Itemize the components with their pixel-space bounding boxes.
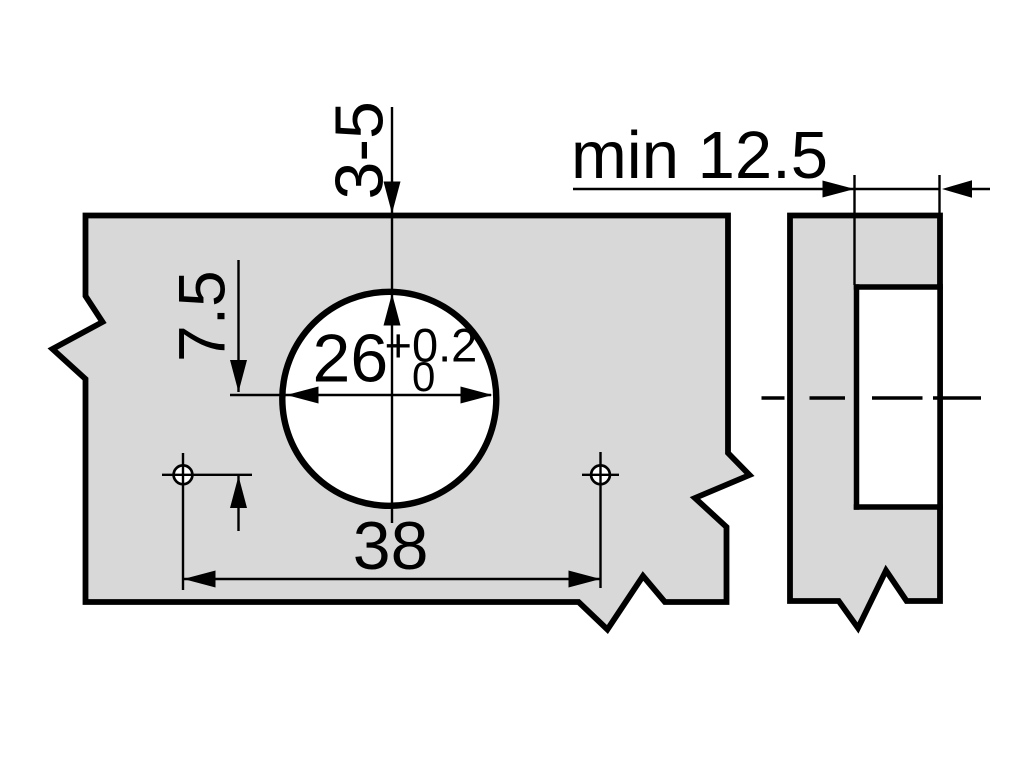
arrowhead right to cavity depth extension bbox=[823, 181, 855, 198]
extension line at cavity bottom wall bbox=[853, 175, 855, 285]
left screw hole bbox=[174, 465, 193, 484]
arrowhead down to cup centerline bbox=[230, 360, 247, 392]
arrowhead left to door front face bbox=[942, 180, 972, 197]
arrowhead up to cup circle top bbox=[384, 294, 401, 326]
cup hole circle d26 bbox=[282, 292, 496, 506]
door panel side view (broken bottom edge) bbox=[790, 216, 940, 629]
left screw hole vertical axis / 38 extension line bbox=[182, 453, 184, 590]
door panel front view (broken edges) bbox=[53, 216, 750, 630]
svg-text:26: 26 bbox=[313, 321, 389, 397]
cup cavity in side view bbox=[857, 287, 943, 507]
right screw hole horizontal axis bbox=[582, 474, 619, 476]
cavity top edge bbox=[854, 284, 943, 290]
right screw hole bbox=[591, 465, 610, 484]
38 dimension line bbox=[184, 578, 601, 580]
arrowhead up to screw hole axis bbox=[230, 476, 247, 508]
svg-text:0: 0 bbox=[412, 353, 435, 400]
right screw hole vertical axis / 38 extension line bbox=[599, 452, 601, 588]
svg-text:3-5: 3-5 bbox=[322, 101, 398, 199]
cup horizontal diameter dimension line bbox=[230, 394, 491, 396]
cavity lower edge bbox=[854, 504, 943, 510]
7.5 dimension upper line bbox=[237, 260, 239, 392]
arrowhead right bbox=[569, 571, 601, 588]
svg-text:38: 38 bbox=[353, 508, 429, 584]
cup vertical centerline / 3-5 dimension line bbox=[391, 107, 393, 523]
arrowhead right to cup inner edge bbox=[461, 387, 493, 404]
svg-text:7.5: 7.5 bbox=[165, 270, 239, 362]
extension line at door front face bbox=[938, 175, 940, 216]
cup axis centerline in side view (dashed) bbox=[762, 396, 785, 399]
svg-text:min 12.5: min 12.5 bbox=[571, 118, 828, 193]
min 12.5 dimension line bbox=[573, 188, 939, 190]
7.5 dimension lower line bbox=[237, 476, 239, 531]
arrowhead left bbox=[184, 571, 216, 588]
dimension tail line bbox=[970, 188, 990, 190]
arrowhead down to panel top edge bbox=[384, 182, 401, 214]
door front face edge redraw bbox=[937, 284, 943, 510]
cavity bottom wall edge bbox=[854, 284, 860, 510]
arrowhead left to cup inner edge bbox=[287, 387, 319, 404]
left screw hole horizontal axis bbox=[162, 474, 252, 476]
